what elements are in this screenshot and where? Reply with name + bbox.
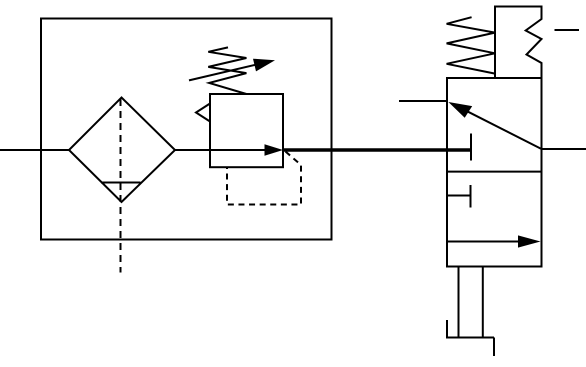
water trap baffle <box>101 182 141 184</box>
adjustment spring (zigzag) <box>208 47 246 94</box>
wire: main output line (thick) <box>283 148 471 152</box>
valve position divider <box>447 171 542 173</box>
wire: inlet line <box>0 149 69 151</box>
exhaust manifold stub (up-left) <box>446 320 448 338</box>
enclosure (FRL unit boundary) <box>41 19 332 240</box>
exhaust port line (right) <box>482 267 484 338</box>
exhaust port line (left) <box>458 267 460 338</box>
blocked port T (bottom position) <box>447 185 471 208</box>
drain line (dashed) <box>120 99 122 273</box>
wire stub right of pilot box <box>555 29 580 31</box>
exhaust manifold stub (down-right) <box>493 338 495 357</box>
filter F1 (diamond) <box>69 98 175 203</box>
relief vent triangle <box>196 104 210 122</box>
pilot box with internal spring notches <box>495 7 542 79</box>
flow arrow inside regulator <box>210 144 283 155</box>
return spring (zigzag, left of pilot box) <box>447 17 495 73</box>
flow path arrow (top position, diagonal) <box>448 102 541 149</box>
feedback pilot line (dashed) <box>227 152 301 205</box>
wire: filter to regulator <box>175 149 210 151</box>
wire: outlet line (right) <box>542 148 586 150</box>
pilot line (left, top position) <box>399 100 447 102</box>
regulator R1 (pressure regulator body) <box>210 94 283 167</box>
flow path arrow (bottom position) <box>447 235 541 247</box>
valve V1 (body, two stacked positions) <box>447 78 542 267</box>
blocked port bar (top position) <box>470 134 472 161</box>
exhaust manifold (horizontal) <box>446 337 494 339</box>
adjustment arrow <box>189 59 275 81</box>
